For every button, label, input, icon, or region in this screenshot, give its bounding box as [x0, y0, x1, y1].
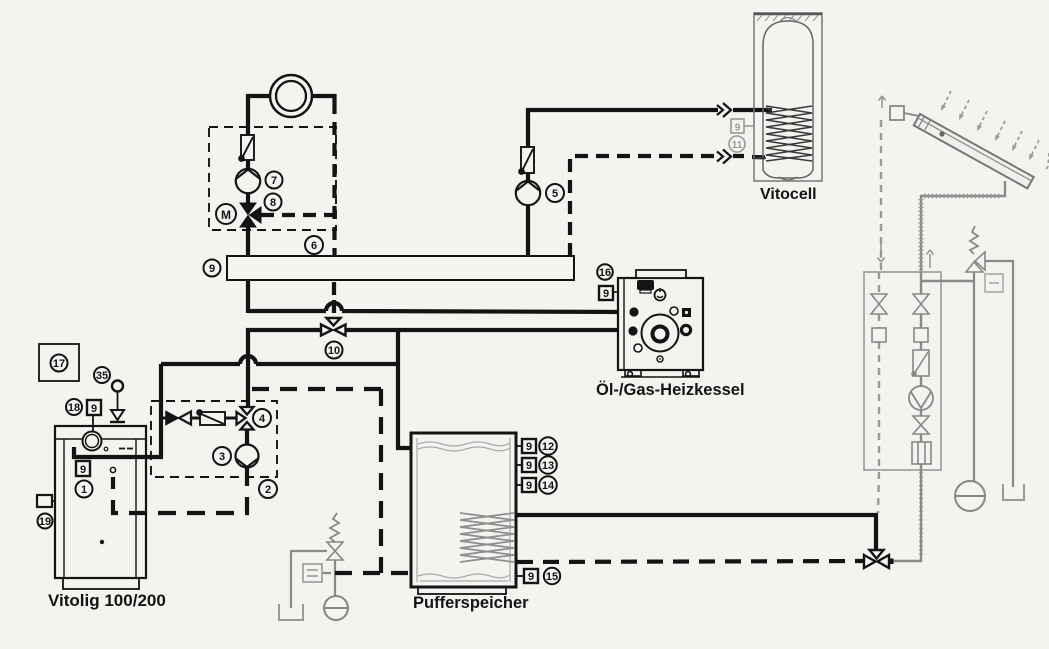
burner inner ring: [653, 327, 668, 342]
wire pump 7 to mixing valve: [246, 193, 250, 204]
wire manifold to pump 5 riser: [526, 205, 530, 256]
solar station box: [864, 272, 941, 470]
solar collector panel: [914, 114, 1034, 188]
drain container right: [1003, 484, 1024, 500]
heating circuit circle: [270, 75, 312, 117]
wire filter to pump 7: [246, 160, 250, 170]
buffer flow line to solar valve: [517, 515, 876, 549]
buffer tank foot: [418, 587, 506, 594]
safety valve spring: [330, 513, 339, 542]
svg-text:Vitocell: Vitocell: [760, 186, 817, 203]
drain container: [279, 604, 303, 620]
Vitocell drain arc: [779, 177, 797, 180]
dashed buffer line to solar valve: [517, 561, 864, 562]
wire dashed heating return down to manifold: [332, 101, 336, 256]
thermal discharge valve triangle: [111, 410, 124, 420]
svg-text:7: 7: [271, 175, 277, 187]
flow line to Vitocell: [528, 110, 772, 147]
svg-text:9: 9: [603, 288, 609, 300]
svg-text:8: 8: [270, 197, 276, 209]
flow arrow up beside riser: [927, 250, 934, 268]
wire S18 to thermowell: [92, 415, 94, 431]
flow meter: [912, 442, 931, 464]
boiler right donut fitting: [681, 325, 690, 334]
svg-text:9: 9: [80, 464, 86, 476]
svg-text:4: 4: [259, 413, 266, 425]
Vitolig foot: [63, 578, 139, 589]
svg-text:35: 35: [96, 370, 108, 382]
boiler flow line with crossing hop: [74, 356, 396, 457]
wire mixing valve to manifold: [246, 227, 250, 256]
label circle 1: [76, 481, 93, 498]
pressure gauge box: [985, 274, 1003, 292]
sensor box S18: [87, 400, 101, 415]
wire check valve to valve 4: [225, 417, 238, 420]
wire heating circle right leg: [311, 96, 335, 102]
wire shutoff to check valve: [188, 417, 200, 420]
thermometer: [655, 290, 666, 301]
sensor box S16: [599, 286, 613, 300]
dashed valve unit box 2: [151, 401, 277, 477]
sensor box S1: [76, 461, 90, 476]
svg-text:1: 1: [81, 484, 87, 496]
solar pump: [909, 386, 933, 410]
pressure gauge box: [303, 564, 322, 582]
thermal safety sensor bulb 35: [112, 381, 123, 392]
motor M circle: [216, 204, 236, 224]
svg-text:11: 11: [732, 140, 743, 151]
svg-text:15: 15: [546, 571, 558, 583]
boiler bolt circles: [670, 307, 678, 315]
filter F2: [519, 147, 534, 174]
mixing valve 3-way M: [240, 203, 261, 227]
boiler top lid: [636, 270, 686, 278]
wire stub riser to shutoff valve: [161, 417, 168, 420]
svg-text:2: 2: [265, 484, 271, 496]
svg-text:9: 9: [526, 441, 532, 453]
fitting right column: [914, 328, 928, 342]
label circle 12: [539, 437, 557, 455]
svg-text:16: 16: [599, 267, 611, 279]
wire safety group down to expansion vessel: [973, 272, 975, 481]
svg-text:14: 14: [542, 480, 555, 492]
box 19: [37, 495, 52, 507]
label circle 18: [66, 399, 82, 415]
svg-text:13: 13: [542, 460, 554, 472]
relief outlet wire to drain: [985, 261, 1013, 487]
svg-text:18: 18: [68, 402, 80, 414]
control panel marks: [104, 447, 108, 451]
Vitocell casing top hatching: [757, 14, 819, 21]
Vitolig thermowell circle: [83, 432, 102, 451]
sun ray arrows: [941, 91, 1049, 170]
label circle 9: [204, 260, 221, 277]
svg-text:Öl-/Gas-Heizkessel: Öl-/Gas-Heizkessel: [596, 380, 745, 399]
svg-text:9: 9: [91, 403, 97, 415]
valve 4 (3-way): [237, 407, 254, 430]
relief outlet wire to drain container: [291, 551, 327, 608]
grey dashed line inside station (left column): [878, 272, 879, 513]
svg-text:3: 3: [219, 451, 225, 463]
label circle 7: [266, 172, 283, 189]
svg-text:6: 6: [311, 240, 317, 252]
boiler connection black dot lower: [628, 326, 637, 335]
svg-text:19: 19: [39, 516, 51, 528]
Vitocell tank body: [763, 21, 813, 178]
label circle 16: [597, 264, 613, 280]
manifold bar: [227, 256, 574, 280]
Vitocell heating coil: [766, 106, 812, 161]
sensor box S13: [522, 458, 536, 472]
label circle 3: [213, 447, 231, 465]
sensor box S12: [522, 439, 536, 453]
shutoff valve below pump: [913, 416, 929, 434]
filter F1: [239, 135, 254, 161]
return line valve 10 to oil boiler: [346, 328, 618, 332]
safety valve spring: [970, 226, 978, 254]
wire branch down to buffer tank top: [398, 330, 412, 448]
dashed return header to buffer tank: [252, 389, 381, 573]
label circle 8: [265, 194, 282, 211]
wire right column in station: [889, 272, 921, 561]
chevrons flow line: [717, 103, 731, 117]
label circle 6: [305, 236, 323, 254]
shutoff valve bowtie (boiler circuit): [166, 412, 178, 425]
filter right column: [912, 350, 929, 376]
label circle 35: [94, 367, 110, 383]
air vent box at collector: [890, 106, 904, 120]
shutoff valve right column: [913, 294, 929, 314]
Pufferspeicher tank: [411, 433, 516, 587]
label circle 15: [544, 568, 560, 584]
svg-text:12: 12: [542, 441, 554, 453]
svg-text:9: 9: [526, 480, 532, 492]
wire station top branch to safety group: [921, 280, 974, 282]
wire dashed mixing valve right branch: [261, 213, 334, 217]
chevrons return line: [717, 150, 731, 164]
pump P3: [236, 445, 259, 468]
expansion vessel: [324, 596, 348, 620]
svg-text:9: 9: [735, 123, 741, 134]
label circle 5: [546, 184, 564, 202]
wire dashed pump 3 to boiler return: [113, 468, 247, 513]
pump P7: [236, 169, 260, 193]
label circle 2: [259, 480, 277, 498]
label circle 13: [539, 456, 557, 474]
pump P5: [516, 181, 540, 205]
label circle 10: [326, 342, 343, 359]
check valve: [197, 410, 225, 425]
sensor box S14: [522, 478, 536, 492]
dashed return to buffer bottom: [335, 571, 411, 575]
svg-text:Vitolig 100/200: Vitolig 100/200: [48, 591, 166, 610]
flow arrow down on expansion line: [878, 244, 885, 262]
boiler interior dot: [100, 540, 104, 544]
ribbed pipe texture: [924, 194, 1002, 199]
box 17: [39, 344, 79, 381]
burner control block: [637, 280, 654, 290]
wire dashed manifold to valve 10: [332, 282, 336, 316]
Vitocell outer casing: [754, 13, 822, 181]
svg-text:Pufferspeicher: Pufferspeicher: [413, 594, 529, 612]
Vitolig boiler body: [55, 426, 146, 578]
wire valve 4 to pump 3: [245, 429, 249, 446]
burner door circle: [642, 315, 679, 352]
solar expansion vessel: [955, 481, 985, 511]
svg-text:17: 17: [53, 358, 65, 370]
label circle 17: [51, 355, 68, 372]
air vent arrow up: [879, 96, 886, 108]
label circle 4: [253, 409, 271, 427]
label circle 19: [38, 514, 53, 529]
label 11 grey: [729, 136, 745, 152]
boiler right square fitting: [682, 308, 691, 317]
boiler connection black dot upper: [629, 307, 638, 316]
safety valve: [966, 252, 985, 272]
valve 10 (3-way): [321, 318, 346, 336]
svg-text:9: 9: [526, 460, 532, 472]
sensor box S15: [524, 569, 538, 583]
fitting left column: [872, 328, 886, 342]
vent circle on return: [110, 467, 115, 472]
solar 3-way valve black: [864, 550, 889, 568]
buffer solar coil grey: [460, 513, 514, 562]
grey dashed expansion line from vent down to station: [880, 120, 882, 272]
wire valve to expansion vessel: [323, 560, 335, 596]
svg-text:10: 10: [328, 345, 340, 357]
Vitocell sensor box grey: [731, 119, 754, 133]
wire heating circle left leg: [248, 96, 271, 135]
Oil/Gas boiler body: [618, 278, 703, 370]
dashed return line from Vitocell: [570, 156, 770, 256]
boiler feet: [621, 370, 700, 377]
label circle 14: [539, 476, 557, 494]
svg-text:9: 9: [528, 571, 534, 583]
svg-text:9: 9: [209, 263, 215, 275]
wire collector to down pipe: [921, 181, 1005, 272]
wire pump 5 to filter: [526, 173, 530, 181]
wire manifold down to flow line: [246, 280, 250, 313]
svg-text:M: M: [221, 208, 231, 222]
return line valve 10 left to riser: [248, 330, 322, 406]
flow line manifold to oil boiler with crossing hop: [248, 303, 632, 312]
shutoff valve left column: [871, 294, 887, 314]
safety valve: [327, 542, 343, 560]
wire vent box to collector: [904, 113, 919, 116]
collector absorber dot: [939, 131, 944, 136]
dashed mixing unit box: [209, 127, 336, 230]
svg-text:5: 5: [552, 188, 558, 200]
